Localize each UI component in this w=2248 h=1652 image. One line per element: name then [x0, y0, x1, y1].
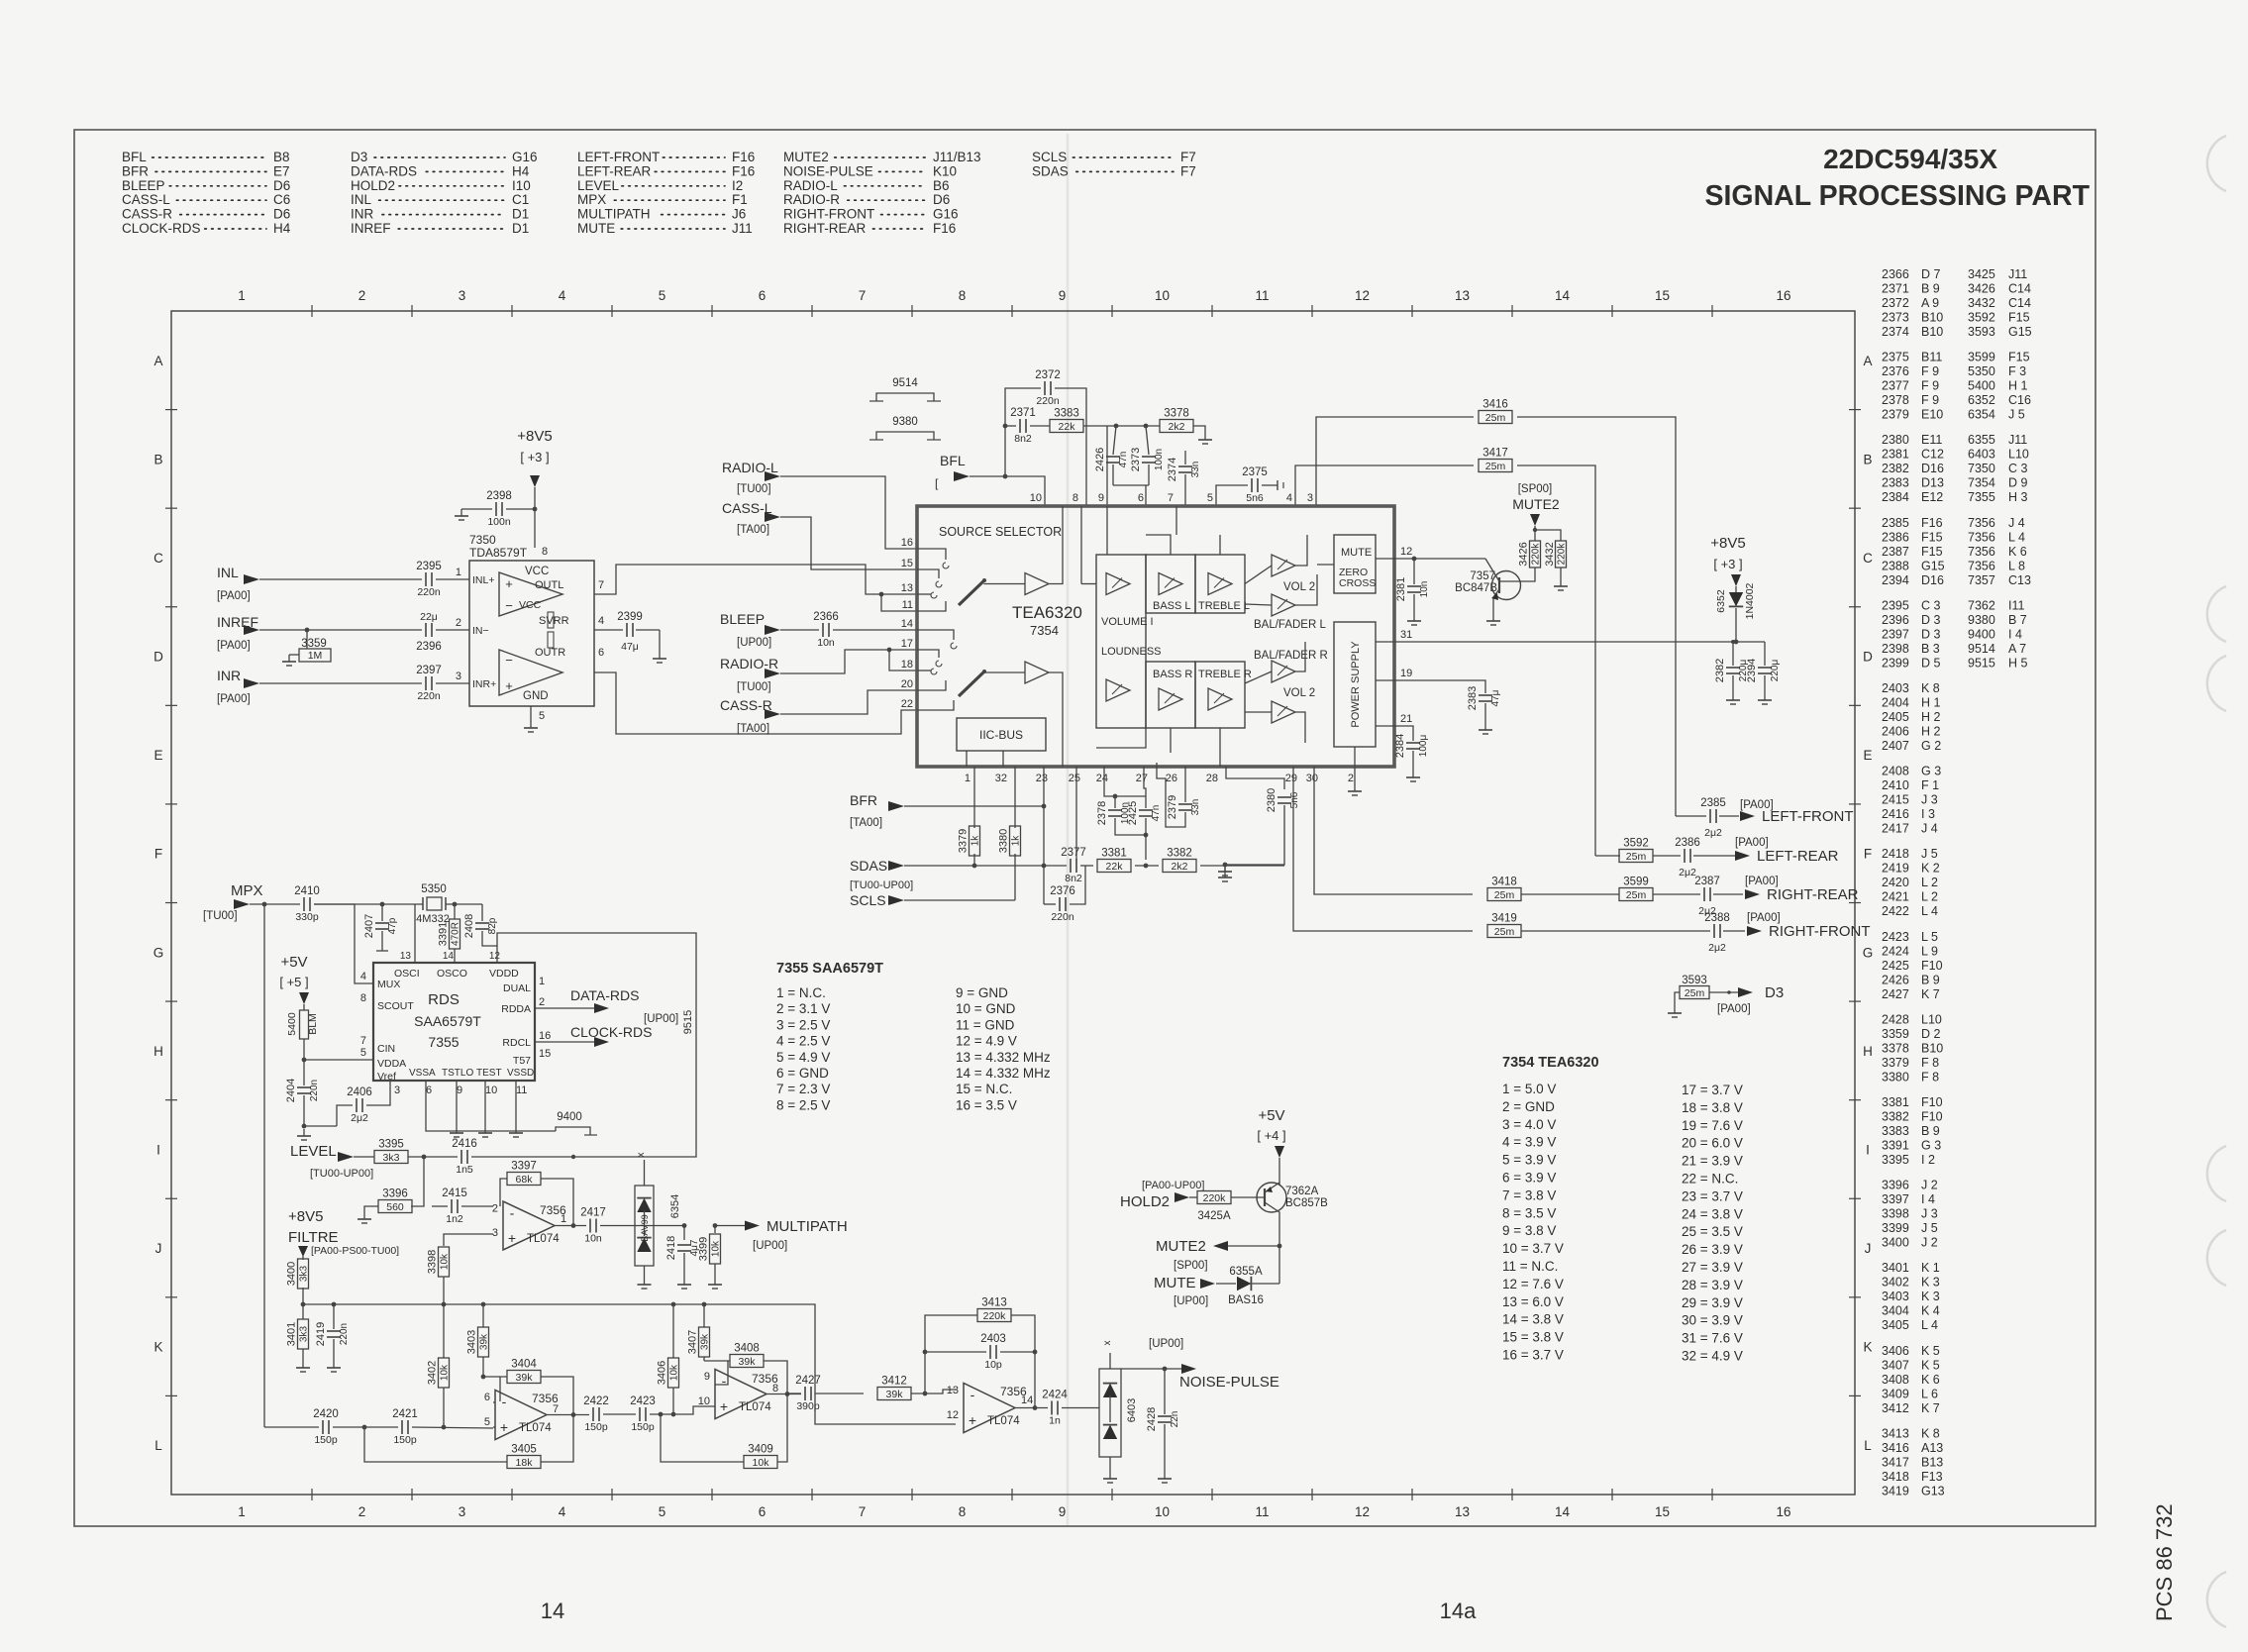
svg-text:5400: 5400 — [286, 1012, 298, 1036]
wire CASS-R to pin 20 — [780, 690, 917, 714]
svg-text:K 7: K 7 — [1921, 987, 1940, 1001]
ground at 2419 — [327, 1361, 341, 1372]
TREBLE R block — [1195, 662, 1252, 728]
svg-text:BLEEP: BLEEP — [122, 178, 165, 193]
ground at 2380 — [1218, 863, 1232, 876]
svg-text:SCOUT: SCOUT — [377, 1000, 414, 1012]
svg-text:7: 7 — [859, 288, 867, 303]
svg-text:16 = 3.7 V: 16 = 3.7 V — [1502, 1348, 1564, 1363]
svg-text:13: 13 — [400, 951, 412, 962]
wire 2366 to pin 14 — [833, 629, 917, 631]
capacitor 2380 5n6 — [1225, 788, 1300, 865]
svg-text:SVRR: SVRR — [539, 615, 569, 627]
wire pin 25 riser — [1075, 767, 1077, 860]
svg-text:2μ2: 2μ2 — [1704, 827, 1722, 839]
svg-text:H 1: H 1 — [2008, 379, 2028, 393]
svg-text:2376: 2376 — [1050, 885, 1075, 897]
svg-text:7357: 7357 — [1968, 573, 1995, 587]
svg-text:D13: D13 — [1921, 476, 1944, 490]
node BLEEP input — [720, 611, 780, 649]
svg-text:2378: 2378 — [1096, 801, 1108, 825]
svg-text:[TU00-UP00]: [TU00-UP00] — [850, 879, 913, 891]
svg-text:8: 8 — [959, 1504, 967, 1519]
svg-text:F15: F15 — [1921, 545, 1943, 559]
capacitor 2396 22u — [416, 611, 442, 653]
svg-text:TREBLE L: TREBLE L — [1198, 600, 1250, 612]
svg-text:L 2: L 2 — [1921, 876, 1938, 889]
svg-text:5400: 5400 — [1968, 379, 1995, 393]
svg-text:B 7: B 7 — [2008, 613, 2027, 627]
svg-text:2428: 2428 — [1882, 1012, 1909, 1026]
svg-text:[UP00]: [UP00] — [1149, 1338, 1183, 1350]
svg-text:24 = 3.8 V: 24 = 3.8 V — [1682, 1206, 1743, 1221]
svg-text:Vref: Vref — [377, 1071, 396, 1083]
svg-text:+8V5: +8V5 — [288, 1208, 323, 1225]
ground at 2382 — [1726, 693, 1740, 704]
svg-text:23: 23 — [1036, 773, 1048, 784]
svg-text:L 9: L 9 — [1921, 944, 1938, 958]
capacitor 2410 330p — [294, 885, 320, 923]
svg-text:x: x — [636, 1153, 647, 1158]
svg-text:G13: G13 — [1921, 1484, 1945, 1497]
resistor 3378 2k2 — [1160, 408, 1205, 434]
svg-text:MULTIPATH: MULTIPATH — [766, 1218, 848, 1235]
capacitor 2406 2u2 — [337, 1081, 390, 1126]
svg-text:I2: I2 — [732, 178, 743, 193]
wire INL to 2395 — [259, 578, 422, 580]
svg-text:3599: 3599 — [1968, 351, 1995, 364]
table 7354 TEA6320 pin voltages — [1502, 1055, 1743, 1364]
svg-text:10n: 10n — [1419, 581, 1430, 598]
resistor 3402 10k — [427, 1304, 451, 1427]
BASS R block — [1146, 662, 1195, 728]
svg-text:TL074: TL074 — [987, 1415, 1020, 1427]
node RADIO-L input — [722, 460, 780, 495]
wire OUTL to TEA6320 pin 13 — [594, 565, 917, 594]
svg-text:8: 8 — [959, 288, 967, 303]
svg-text:BLM: BLM — [307, 1013, 319, 1035]
svg-text:BASS R: BASS R — [1153, 669, 1192, 680]
svg-text:CASS-R: CASS-R — [720, 697, 772, 713]
paper centerfold crease — [1067, 134, 1070, 1525]
svg-text:RDDA: RDDA — [501, 1003, 531, 1015]
transistor 7362A BC857B — [1257, 1158, 1328, 1284]
wire MPX junction — [250, 902, 300, 907]
svg-text:3397: 3397 — [511, 1161, 537, 1173]
node MUTE2 SP00 top — [1512, 483, 1560, 526]
svg-text:J 5: J 5 — [2008, 408, 2025, 422]
svg-text:K: K — [153, 1340, 162, 1355]
svg-text:29: 29 — [1285, 773, 1297, 784]
svg-text:E: E — [153, 748, 162, 763]
jumper 9514 — [869, 377, 941, 401]
ground at 3593 — [1668, 1006, 1682, 1017]
svg-text:C16: C16 — [2008, 393, 2031, 407]
crystal 5350 4M332 — [416, 883, 450, 925]
VOL 2 amplifiers R — [1272, 661, 1315, 723]
svg-text:IN−: IN− — [472, 625, 489, 637]
inner schematic frame — [171, 311, 1855, 1495]
svg-text:10k: 10k — [753, 1457, 770, 1469]
svg-text:3402: 3402 — [427, 1361, 439, 1385]
wire opamp1 output — [555, 1223, 586, 1228]
svg-text:VDDA: VDDA — [377, 1058, 406, 1070]
svg-text:2404: 2404 — [285, 1079, 297, 1102]
svg-text:F 9: F 9 — [1921, 364, 1939, 378]
svg-text:CIN: CIN — [377, 1043, 395, 1055]
selector switch R — [917, 630, 1025, 710]
svg-text:C13: C13 — [2008, 573, 2031, 587]
svg-text:D 3: D 3 — [1921, 613, 1941, 627]
svg-text:1 = 5.0 V: 1 = 5.0 V — [1502, 1082, 1556, 1096]
svg-text:MPX: MPX — [231, 882, 263, 899]
page number 14 — [541, 1599, 564, 1623]
svg-text:1k: 1k — [971, 835, 981, 847]
svg-text:G15: G15 — [2008, 325, 2032, 339]
svg-text:33n: 33n — [1190, 462, 1201, 478]
svg-text:+8V5: +8V5 — [1710, 535, 1745, 552]
svg-text:14 = 4.332 MHz: 14 = 4.332 MHz — [956, 1066, 1051, 1081]
svg-text:25m: 25m — [1626, 889, 1647, 901]
svg-text:22DC594/35X: 22DC594/35X — [1823, 144, 1997, 174]
VOLUME LOUDNESS block — [1096, 555, 1162, 728]
svg-text:24: 24 — [1096, 773, 1108, 784]
svg-text:D16: D16 — [1921, 573, 1944, 587]
node MUTE diode 6355A BAS16 — [1154, 1266, 1279, 1307]
svg-text:B: B — [1863, 452, 1872, 466]
svg-text:220k: 220k — [1203, 1192, 1227, 1204]
capacitor 2407 47p — [363, 904, 398, 951]
svg-text:14a: 14a — [1440, 1599, 1477, 1623]
svg-text:LEVEL: LEVEL — [290, 1143, 337, 1160]
svg-text:12 = 7.6 V: 12 = 7.6 V — [1502, 1277, 1564, 1291]
svg-text:39k: 39k — [886, 1389, 904, 1400]
svg-text:2384: 2384 — [1394, 734, 1406, 758]
svg-text:3418: 3418 — [1491, 877, 1517, 888]
svg-text:-: - — [502, 1394, 507, 1409]
svg-text:L10: L10 — [2008, 448, 2029, 462]
node NOISE-PULSE output — [1149, 1338, 1279, 1391]
svg-text:VSSA: VSSA — [409, 1068, 436, 1079]
wire BLEEP to 2366 — [780, 629, 819, 631]
svg-text:LOUDNESS: LOUDNESS — [1101, 646, 1162, 658]
wire pin 9 riser — [1106, 426, 1108, 506]
svg-text:MUTE: MUTE — [1154, 1275, 1196, 1291]
svg-text:C: C — [153, 551, 163, 566]
svg-text:2408: 2408 — [463, 914, 475, 938]
svg-text:2384: 2384 — [1882, 490, 1909, 504]
svg-text:3391: 3391 — [438, 922, 450, 946]
capacitor 2374 33n — [1167, 451, 1201, 506]
svg-text:3413: 3413 — [981, 1297, 1007, 1309]
svg-text:15: 15 — [1655, 1504, 1670, 1519]
svg-text:K 8: K 8 — [1921, 1426, 1940, 1440]
wire RADIO-L to pin 16 — [780, 476, 917, 549]
svg-text:K 3: K 3 — [1921, 1290, 1940, 1303]
svg-text:3: 3 — [456, 671, 461, 682]
svg-text:2381: 2381 — [1882, 448, 1909, 462]
node BFL — [935, 453, 970, 490]
svg-text:18: 18 — [901, 659, 913, 671]
svg-text:2379: 2379 — [1167, 795, 1178, 819]
wire pin 19 — [1394, 680, 1485, 693]
svg-text:+: + — [720, 1398, 728, 1414]
svg-text:2395: 2395 — [416, 561, 442, 572]
svg-text:4: 4 — [559, 1504, 566, 1519]
svg-text:220n: 220n — [339, 1323, 350, 1345]
svg-text:C14: C14 — [2008, 296, 2031, 310]
component position index list — [1882, 267, 2032, 1497]
svg-text:1: 1 — [561, 1213, 566, 1225]
svg-text:SOURCE SELECTOR: SOURCE SELECTOR — [939, 525, 1062, 539]
svg-text:TREBLE R: TREBLE R — [1198, 669, 1252, 680]
svg-text:B11: B11 — [1921, 351, 1942, 364]
svg-text:TL074: TL074 — [519, 1422, 552, 1434]
svg-text:5: 5 — [659, 288, 666, 303]
svg-text:15: 15 — [539, 1048, 551, 1060]
svg-text:D 7: D 7 — [1921, 267, 1941, 281]
svg-text:16: 16 — [1776, 1504, 1790, 1519]
svg-text:2373: 2373 — [1130, 448, 1142, 471]
signal name index table — [122, 150, 1196, 236]
ground at 2383 — [1479, 723, 1492, 734]
svg-text:2427: 2427 — [795, 1375, 821, 1387]
svg-text:10: 10 — [1155, 1504, 1170, 1519]
svg-text:7355: 7355 — [1968, 490, 1995, 504]
ground at 3396 — [358, 1212, 371, 1223]
svg-text:RIGHT-FRONT: RIGHT-FRONT — [783, 207, 874, 222]
resistor 3383 22k — [1030, 408, 1083, 434]
svg-text:1: 1 — [238, 1504, 246, 1519]
svg-text:K 6: K 6 — [1921, 1373, 1940, 1387]
svg-text:K: K — [1863, 1340, 1872, 1355]
wire pin 3 to 3416 LEFT-FRONT line — [1316, 417, 1474, 506]
svg-text:3419: 3419 — [1491, 913, 1517, 925]
svg-text:OSCO: OSCO — [437, 968, 467, 980]
svg-text:[ +4 ]: [ +4 ] — [1257, 1128, 1285, 1143]
capacitor 2382 220u — [1714, 640, 1749, 693]
svg-text:3412: 3412 — [881, 1376, 907, 1388]
svg-text:G: G — [153, 945, 164, 960]
svg-text:F15: F15 — [1921, 530, 1943, 544]
IC 7354 TEA6320 block outline — [917, 506, 1394, 767]
svg-text:FILTRE: FILTRE — [288, 1229, 339, 1246]
svg-text:2396: 2396 — [416, 641, 442, 653]
resistor 3425A 220k — [1189, 1191, 1265, 1223]
svg-text:6352: 6352 — [1968, 393, 1995, 407]
svg-text:B: B — [153, 452, 162, 466]
svg-text:H 1: H 1 — [1921, 696, 1941, 710]
reference bus wire — [301, 1302, 956, 1424]
svg-text:22k: 22k — [1106, 861, 1124, 873]
svg-text:5n6: 5n6 — [1289, 791, 1300, 808]
resistor 3396 560 — [364, 1157, 424, 1213]
svg-text:220n: 220n — [417, 690, 441, 702]
wire opamp3 output — [766, 1392, 801, 1396]
svg-text:560: 560 — [386, 1201, 404, 1213]
svg-text:2: 2 — [1348, 773, 1354, 784]
svg-text:OUTR: OUTR — [535, 647, 565, 659]
svg-text:J 5: J 5 — [1921, 847, 1938, 861]
svg-text:7350: 7350 — [469, 533, 496, 547]
svg-text:3409: 3409 — [1882, 1387, 1909, 1400]
svg-text:G 3: G 3 — [1921, 765, 1941, 778]
svg-text:I: I — [156, 1142, 160, 1157]
svg-text:220k: 220k — [983, 1310, 1007, 1322]
svg-text:9514: 9514 — [892, 377, 918, 389]
svg-text:G 3: G 3 — [1921, 1139, 1941, 1153]
svg-text:-: - — [510, 1204, 515, 1220]
svg-text:VDDD: VDDD — [489, 968, 519, 980]
svg-text:L 8: L 8 — [2008, 559, 2025, 572]
svg-text:3396: 3396 — [382, 1188, 408, 1200]
svg-text:10k: 10k — [669, 1364, 680, 1381]
svg-text:L 6: L 6 — [1921, 1387, 1938, 1400]
svg-text:25 = 3.5 V: 25 = 3.5 V — [1682, 1224, 1743, 1239]
svg-text:28 = 3.9 V: 28 = 3.9 V — [1682, 1278, 1743, 1292]
svg-text:47μ: 47μ — [621, 641, 639, 653]
svg-text:2418: 2418 — [1882, 847, 1909, 861]
resistor 3599 25m — [1619, 877, 1700, 902]
svg-text:7355 SAA6579T: 7355 SAA6579T — [776, 961, 883, 977]
svg-text:DATA-RDS: DATA-RDS — [351, 163, 417, 178]
svg-text:F16: F16 — [732, 163, 755, 178]
svg-text:4: 4 — [360, 971, 366, 982]
svg-text:C: C — [1863, 551, 1873, 566]
svg-text:K 8: K 8 — [1921, 681, 1940, 695]
svg-text:5 = 3.9 V: 5 = 3.9 V — [1502, 1153, 1556, 1168]
svg-text:26: 26 — [1166, 773, 1177, 784]
svg-text:LEFT-REAR: LEFT-REAR — [1757, 848, 1839, 865]
svg-text:2μ2: 2μ2 — [1708, 942, 1726, 954]
svg-text:INL: INL — [217, 565, 239, 580]
wire 2425 to 3381 node — [1145, 835, 1147, 860]
svg-text:2422: 2422 — [1882, 904, 1909, 918]
svg-text:C 3: C 3 — [2008, 462, 2028, 475]
resistor 3381 22k — [1080, 848, 1159, 874]
svg-text:8: 8 — [542, 546, 548, 558]
svg-text:BAL/FADER R: BAL/FADER R — [1254, 650, 1328, 662]
svg-text:F: F — [1864, 847, 1872, 862]
svg-text:K 2: K 2 — [1921, 862, 1940, 876]
svg-text:25m: 25m — [1485, 461, 1506, 472]
svg-text:13: 13 — [947, 1385, 959, 1396]
svg-text:B 9: B 9 — [1921, 973, 1940, 986]
svg-text:6352: 6352 — [1715, 589, 1727, 613]
svg-text:BLEEP: BLEEP — [720, 611, 765, 627]
svg-text:12: 12 — [1355, 1504, 1370, 1519]
svg-text:SCLS: SCLS — [1032, 150, 1067, 164]
BASS L block — [1146, 555, 1195, 613]
svg-text:F 9: F 9 — [1921, 393, 1939, 407]
svg-text:CLOCK-RDS: CLOCK-RDS — [122, 221, 201, 236]
svg-text:9: 9 — [704, 1371, 710, 1383]
grid column ticks and numbers — [238, 288, 1790, 1519]
svg-text:2387: 2387 — [1694, 876, 1720, 887]
svg-text:2388: 2388 — [1882, 559, 1909, 572]
svg-text:RIGHT-REAR: RIGHT-REAR — [1767, 886, 1859, 903]
svg-text:470R: 470R — [451, 922, 461, 946]
svg-text:68k: 68k — [516, 1174, 534, 1186]
svg-text:INR+: INR+ — [472, 678, 496, 690]
svg-text:J 2: J 2 — [1921, 1236, 1938, 1250]
svg-text:12: 12 — [947, 1409, 959, 1421]
capacitor 2417 10n — [580, 1207, 684, 1245]
resistor 3379 1k — [958, 767, 981, 866]
capacitor 2379 33n — [1157, 763, 1201, 827]
svg-text:RIGHT-FRONT: RIGHT-FRONT — [1769, 923, 1871, 940]
svg-text:3380: 3380 — [998, 829, 1010, 853]
svg-text:[PA00-PS00-TU00]: [PA00-PS00-TU00] — [311, 1245, 399, 1257]
svg-text:3378: 3378 — [1164, 408, 1189, 420]
internal wires TEA6320 — [1081, 506, 1394, 767]
svg-text:MPX: MPX — [577, 192, 606, 207]
svg-text:4 = 3.9 V: 4 = 3.9 V — [1502, 1135, 1556, 1150]
node INREF input — [217, 614, 259, 652]
svg-text:RDS: RDS — [428, 991, 460, 1008]
svg-text:10k: 10k — [440, 1364, 451, 1381]
svg-text:6: 6 — [426, 1084, 432, 1096]
node LEFT-FRONT output — [1740, 799, 1854, 825]
svg-text:30 = 3.9 V: 30 = 3.9 V — [1682, 1313, 1743, 1328]
svg-text:DUAL: DUAL — [503, 982, 531, 994]
svg-text:9380: 9380 — [1968, 613, 1995, 627]
svg-text:LEFT-FRONT: LEFT-FRONT — [577, 150, 660, 164]
svg-text:3 = 2.5 V: 3 = 2.5 V — [776, 1017, 830, 1032]
node MPX input — [203, 882, 263, 922]
ground at 3399 — [708, 1278, 722, 1289]
svg-text:2398: 2398 — [486, 490, 512, 502]
grid row ticks and letters — [153, 354, 1874, 1453]
svg-text:9 = 3.8 V: 9 = 3.8 V — [1502, 1223, 1556, 1238]
svg-text:B 3: B 3 — [1921, 642, 1940, 656]
svg-text:3400: 3400 — [1882, 1236, 1909, 1250]
svg-text:9515: 9515 — [1968, 656, 1995, 670]
svg-text:150p: 150p — [393, 1434, 417, 1446]
svg-text:14: 14 — [541, 1599, 564, 1623]
svg-text:3 = 4.0 V: 3 = 4.0 V — [1502, 1117, 1556, 1132]
svg-text:22n: 22n — [1170, 1411, 1180, 1428]
node DATA-RDS output — [535, 987, 639, 1013]
svg-text:MULTIPATH: MULTIPATH — [577, 207, 651, 222]
svg-text:2408: 2408 — [1882, 765, 1909, 778]
svg-text:BAL/FADER L: BAL/FADER L — [1254, 619, 1326, 631]
svg-text:2380: 2380 — [1882, 433, 1909, 447]
svg-text:16: 16 — [1776, 288, 1790, 303]
svg-text:2396: 2396 — [1882, 613, 1909, 627]
svg-text:3419: 3419 — [1882, 1484, 1909, 1497]
svg-text:2385: 2385 — [1882, 516, 1909, 530]
svg-text:MUTE: MUTE — [1341, 547, 1372, 559]
svg-text:[ +3 ]: [ +3 ] — [520, 450, 549, 465]
svg-text:F: F — [154, 847, 162, 862]
wire 2372 to pin 8 line — [1055, 388, 1086, 506]
ground at 2384 — [1406, 771, 1420, 781]
node HOLD2 — [1120, 1180, 1204, 1210]
capacitor 2375 5n6 — [1216, 466, 1283, 506]
svg-text:K 4: K 4 — [1921, 1304, 1940, 1318]
svg-text:27 = 3.9 V: 27 = 3.9 V — [1682, 1260, 1743, 1275]
node INL input — [217, 565, 259, 602]
capacitor 2385 2u2 LEFT-FRONT — [1676, 797, 1739, 839]
svg-text:39k: 39k — [516, 1372, 534, 1384]
svg-text:5: 5 — [659, 1504, 666, 1519]
svg-text:20 = 6.0 V: 20 = 6.0 V — [1682, 1136, 1743, 1151]
svg-text:2397: 2397 — [1882, 627, 1909, 641]
svg-text:47μ: 47μ — [1490, 689, 1501, 706]
svg-text:9: 9 — [1059, 1504, 1067, 1519]
svg-text:2416: 2416 — [452, 1138, 477, 1150]
